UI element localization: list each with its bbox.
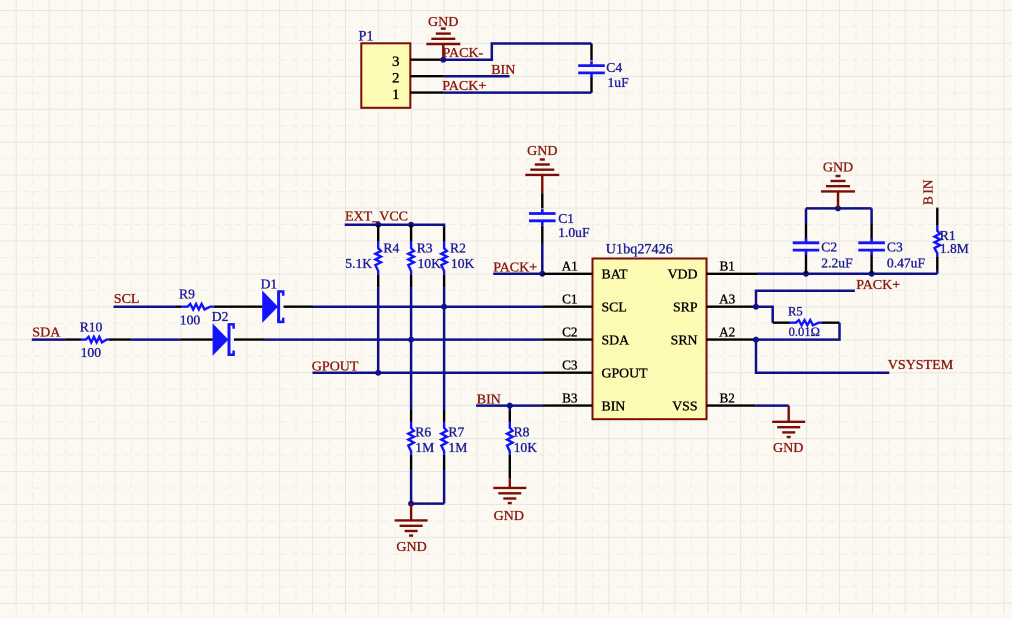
svg-text:0.47uF: 0.47uF (887, 256, 926, 271)
svg-text:1.0uF: 1.0uF (558, 225, 590, 240)
svg-text:R3: R3 (417, 241, 433, 256)
svg-text:2.2uF: 2.2uF (821, 256, 853, 271)
svg-text:D1: D1 (261, 277, 278, 292)
svg-text:R9: R9 (179, 287, 195, 302)
svg-text:A1: A1 (562, 259, 578, 274)
svg-text:B2: B2 (720, 390, 735, 405)
svg-text:BAT: BAT (602, 267, 629, 282)
svg-text:A3: A3 (719, 291, 736, 306)
svg-text:SCL: SCL (114, 292, 140, 307)
svg-text:A2: A2 (719, 324, 735, 339)
svg-text:R6: R6 (415, 424, 431, 439)
svg-text:1.8M: 1.8M (940, 241, 969, 256)
svg-text:GND: GND (823, 160, 853, 175)
svg-text:SDA: SDA (602, 332, 630, 347)
svg-text:GND: GND (396, 540, 426, 555)
svg-text:5.1K: 5.1K (345, 256, 372, 271)
svg-text:BIN: BIN (602, 398, 626, 413)
svg-text:R7: R7 (448, 424, 464, 439)
svg-text:GND: GND (527, 144, 557, 159)
svg-text:100: 100 (81, 345, 102, 360)
svg-text:GND: GND (494, 509, 524, 524)
svg-text:PACK+: PACK+ (442, 79, 486, 94)
svg-text:C3: C3 (887, 240, 903, 255)
svg-text:C2: C2 (562, 324, 577, 339)
svg-text:10K: 10K (451, 256, 475, 271)
svg-text:PACK+: PACK+ (856, 278, 900, 293)
svg-text:R5: R5 (788, 305, 803, 319)
svg-text:B1: B1 (720, 259, 735, 274)
svg-text:1: 1 (392, 87, 400, 103)
svg-text:0.01Ω: 0.01Ω (789, 325, 820, 339)
svg-text:R10: R10 (80, 319, 103, 334)
svg-text:R2: R2 (450, 241, 466, 256)
svg-text:C1: C1 (562, 291, 577, 306)
svg-text:R8: R8 (514, 424, 530, 439)
svg-text:VDD: VDD (668, 267, 698, 282)
svg-text:2: 2 (392, 70, 400, 86)
svg-text:C3: C3 (562, 357, 578, 372)
svg-text:C4: C4 (606, 60, 622, 75)
svg-text:1M: 1M (448, 440, 467, 455)
svg-text:U1bq27426: U1bq27426 (606, 241, 673, 257)
svg-text:3: 3 (392, 54, 400, 70)
svg-text:B IN: B IN (920, 179, 935, 205)
svg-text:B3: B3 (562, 390, 578, 405)
svg-text:VSYSTEM: VSYSTEM (888, 358, 954, 373)
svg-text:GPOUT: GPOUT (602, 366, 649, 381)
svg-text:C2: C2 (821, 240, 837, 255)
svg-text:GND: GND (773, 441, 803, 456)
svg-text:10K: 10K (514, 440, 538, 455)
svg-text:EXT_VCC: EXT_VCC (345, 209, 408, 224)
svg-text:PACK+: PACK+ (493, 260, 537, 275)
svg-text:1uF: 1uF (608, 75, 630, 90)
svg-text:R4: R4 (383, 241, 399, 256)
svg-text:D2: D2 (212, 309, 229, 324)
svg-text:BIN: BIN (491, 63, 515, 78)
svg-text:VSS: VSS (672, 398, 697, 413)
svg-text:SDA: SDA (32, 325, 61, 340)
svg-text:100: 100 (180, 313, 201, 328)
svg-text:SRN: SRN (671, 332, 698, 347)
svg-text:1M: 1M (415, 440, 434, 455)
svg-text:10K: 10K (418, 256, 442, 271)
svg-text:PACK-: PACK- (443, 46, 484, 61)
svg-text:SRP: SRP (673, 300, 698, 315)
svg-text:SCL: SCL (602, 300, 627, 315)
svg-text:C1: C1 (558, 211, 574, 226)
svg-text:P1: P1 (359, 28, 374, 44)
